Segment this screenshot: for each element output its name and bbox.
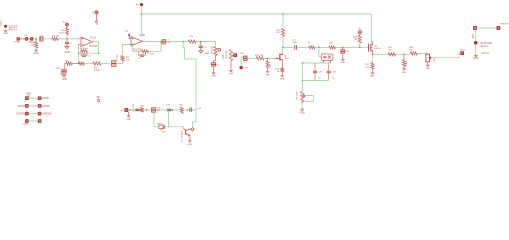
- wire C10 to R12: [247, 57, 256, 59]
- capacitor C9 to ground: [211, 63, 215, 67]
- ground GND C14: [342, 53, 344, 59]
- wire R24 to trimmer: [417, 52, 428, 55]
- resistor R24 series: [410, 52, 417, 55]
- resistor R7 interstage: [93, 62, 101, 66]
- wire top rail down to Q2 drain: [370, 14, 372, 41]
- ground GND P2: [229, 70, 233, 71]
- wire top supply rail: [142, 13, 372, 15]
- jumper square S3: [30, 38, 33, 41]
- jumper square BATT: [473, 26, 476, 29]
- wire P3 to ground: [301, 102, 303, 109]
- node D junction: [200, 41, 202, 43]
- wire C5 to R8 riser: [116, 61, 123, 63]
- op-amp IC1B output wire: [142, 41, 161, 43]
- wire pot P2 to ground: [230, 61, 232, 70]
- jumper square P2 wiper: [234, 54, 237, 57]
- jumper square row3 left: [25, 112, 28, 115]
- transistor Q1 JFET: [274, 53, 282, 62]
- node IC1B inverting junction: [131, 44, 133, 46]
- resistor R19 series: [329, 46, 335, 49]
- capacitor C2 to ground: [66, 39, 68, 41]
- jumper square S2: [25, 38, 28, 41]
- svg-text:5: 5: [129, 43, 130, 45]
- op-amp IC1B triangle: [131, 37, 142, 46]
- wire output down to feedback rail: [98, 42, 100, 53]
- wire feedback drop IC1B: [131, 45, 133, 52]
- resistor R23 to ground: [403, 60, 406, 67]
- wire R6 to R7: [85, 63, 93, 65]
- supply V+ top pad: [140, 3, 143, 6]
- wire R1 to ground: [35, 48, 37, 50]
- wire row2: [28, 105, 38, 107]
- trimmer TR1: [426, 54, 433, 62]
- wire J2 to ground: [475, 45, 477, 56]
- wire R7 to C5: [101, 63, 110, 65]
- wire vactrol bottom rail: [303, 62, 331, 64]
- svg-text:BOUT: BOUT: [460, 49, 467, 51]
- resistor R4 feedback: [81, 50, 88, 53]
- wire LFO row to Q3 collector: [192, 110, 196, 127]
- node LFO junction 4: [172, 109, 174, 111]
- wire trimmer wiper to BOUT: [432, 53, 460, 58]
- ground GND R1: [34, 50, 38, 51]
- capacitor C16 to rail: [328, 63, 330, 70]
- op-amp IC1A triangle: [81, 37, 93, 47]
- jumper square row1 left: [25, 97, 28, 100]
- wire branch down to R17: [282, 14, 284, 28]
- svg-text:+BATSW: +BATSW: [42, 113, 52, 116]
- svg-text:BRIGHT: BRIGHT: [501, 24, 509, 26]
- wire drain to C11: [283, 46, 294, 48]
- capacitor C3 feedback: [82, 54, 86, 56]
- wire node D to pot P1: [214, 42, 216, 47]
- svg-text:EGND2: EGND2: [17, 113, 26, 116]
- wire pad riser to C10: [241, 57, 243, 66]
- svg-text:+BATT: +BATT: [471, 32, 474, 39]
- node LFO junction 3: [146, 109, 148, 111]
- svg-text:GND: GND: [370, 76, 375, 78]
- resistor R21 to ground: [371, 63, 374, 69]
- svg-text:SPEED: SPEED: [157, 124, 164, 126]
- svg-text:L2GND: L2GND: [42, 105, 50, 108]
- ground GND R13: [267, 68, 269, 71]
- wire R5 to C4: [65, 64, 66, 70]
- connector J1 pad: [4, 25, 7, 28]
- wire BATT down to jack: [474, 30, 476, 41]
- jumper square row2 left: [25, 104, 28, 107]
- capacitor C1 series: [39, 37, 41, 41]
- svg-text:TL072P: TL072P: [89, 45, 98, 48]
- wire feedback up to output: [160, 42, 162, 52]
- capacitor C5 series: [112, 61, 116, 67]
- node F junction: [318, 47, 320, 49]
- net cross mark: [28, 95, 30, 96]
- ground GND LFO: [127, 116, 131, 117]
- wire R10 to node D: [196, 41, 214, 43]
- capacitor C8 to ground: [200, 42, 202, 46]
- ground AGND C8 triangle: [199, 51, 203, 53]
- connector pad IN2: [239, 66, 242, 69]
- resistor R3 bias: [66, 26, 68, 28]
- ground GND trimmer: [426, 65, 430, 66]
- svg-text:IC1A: IC1A: [90, 36, 96, 39]
- node LFO junction 5: [187, 109, 189, 111]
- wire supply V+ into IC1B top: [141, 14, 143, 36]
- wire C1 to R2: [42, 38, 52, 40]
- resistor R20 to V+: [358, 35, 361, 43]
- ground GND P3: [300, 109, 304, 110]
- capacitor C14 to ground: [342, 47, 344, 49]
- transistor Q2 MOSFET: [369, 43, 373, 53]
- node gain junction: [78, 63, 80, 65]
- svg-text:VR2 50k: VR2 50k: [226, 50, 228, 59]
- capacitor C18 electrolytic row: [152, 108, 156, 113]
- potentiometer P2 volume: [229, 50, 232, 61]
- svg-text:C17 10u: C17 10u: [133, 103, 135, 112]
- capacitor C15 to rail: [314, 63, 316, 70]
- svg-text:CE-2: CE-2: [0, 20, 3, 26]
- trimmer SPEED: [159, 125, 165, 130]
- capacitor C11 series: [294, 45, 296, 49]
- wire V- flag: [96, 14, 98, 21]
- pad diamond Q3 collector: [191, 128, 194, 131]
- svg-text:LJCH: LJCH: [22, 123, 28, 126]
- svg-text:GND: GND: [473, 57, 479, 60]
- svg-text:GND: GND: [229, 73, 234, 75]
- svg-text:1M: 1M: [270, 64, 272, 67]
- node feedback left junction: [78, 52, 80, 54]
- wire vactrol pin1 down: [323, 61, 325, 64]
- ground AGND C4: [63, 73, 65, 75]
- svg-text:GND: GND: [3, 33, 8, 35]
- svg-text:GND: GND: [204, 53, 209, 55]
- wire J1 to ground: [5, 28, 7, 31]
- svg-text:IC1B: IC1B: [139, 34, 145, 37]
- wire Q2 source to node I: [373, 53, 404, 54]
- wire vactrol pin2 down: [330, 61, 332, 64]
- wire R19 to node G: [335, 46, 359, 48]
- svg-text:J201: J201: [284, 58, 290, 60]
- node feedback right junction: [98, 52, 100, 54]
- svg-text:R2 47k: R2 47k: [52, 36, 60, 38]
- jumper square BOUT: [461, 52, 464, 55]
- connector J2 pad: [474, 41, 478, 45]
- svg-text:→OUT-2: →OUT-2: [479, 52, 489, 55]
- wire trimmer to ground: [427, 62, 429, 65]
- wire row1: [28, 97, 38, 99]
- svg-text:+OUT-1: +OUT-1: [479, 45, 488, 48]
- capacitor C17 on row: [135, 108, 139, 110]
- node LFO junction 1: [129, 109, 131, 111]
- svg-text:BS170: BS170: [374, 48, 381, 50]
- svg-text:3: 3: [78, 38, 79, 40]
- svg-text:GND: GND: [65, 51, 71, 54]
- svg-text:V-: V-: [96, 23, 98, 26]
- optocoupler VTL5C vactrol: [321, 54, 333, 60]
- jumper square row1 right: [38, 97, 41, 100]
- node Q2 source junction: [372, 53, 374, 55]
- op-amp IC1A output wire: [93, 41, 99, 43]
- resistor R25 on row: [141, 108, 144, 113]
- resistor R17 drain from rail: [281, 28, 284, 36]
- ground GND J2: [474, 56, 478, 57]
- jumper square BRIGHT: [497, 26, 500, 29]
- supply V+ pad right: [358, 31, 361, 34]
- wire R2 to node B: [58, 38, 81, 40]
- svg-text:GND: GND: [280, 78, 285, 80]
- wire loop to Q3 base: [169, 127, 184, 129]
- svg-text:GND: GND: [34, 52, 40, 55]
- supply VB arrow to non-inverting input: [128, 33, 130, 36]
- svg-text:1M: 1M: [354, 39, 357, 41]
- svg-text:CN2: CN2: [244, 68, 249, 70]
- node bottom rail junction: [302, 80, 304, 82]
- svg-text:GND: GND: [425, 68, 430, 70]
- svg-text:C5 10u: C5 10u: [116, 54, 118, 62]
- capacitor C7 electrolytic series: [162, 40, 166, 44]
- svg-text:GND: GND: [26, 93, 32, 96]
- net stub input squares: [20, 38, 25, 40]
- wire node G to V+ branch: [359, 44, 361, 48]
- resistor R26 on row: [180, 107, 183, 113]
- wire R18 to node F: [315, 46, 329, 48]
- wire P3 wiper loop: [305, 96, 314, 102]
- capacitor C10 electrolytic series: [243, 56, 247, 60]
- wire R17 to Q1 drain: [282, 36, 284, 47]
- ground GND Q3: [188, 141, 192, 142]
- node A junction: [35, 38, 37, 40]
- wire node I to R24: [404, 53, 410, 55]
- resistor R18 series: [309, 46, 316, 49]
- potentiometer P1 RATE: [214, 47, 217, 56]
- wire pot P1 to C9: [214, 56, 216, 63]
- wire node H to Q2 gate: [360, 46, 369, 48]
- svg-text:GND: GND: [340, 62, 345, 64]
- node LFO junction 2: [139, 109, 141, 111]
- ground GND R23: [403, 66, 405, 68]
- node top rail junction: [141, 13, 143, 15]
- wire S3 to node A: [33, 38, 39, 40]
- potentiometer P3 depth: [301, 91, 304, 101]
- node P3 bottom junction: [301, 101, 303, 103]
- op-amp IC1A inverting stub: [79, 43, 81, 45]
- svg-text:R4 100k: R4 100k: [80, 48, 89, 50]
- wire LFO row: [128, 109, 196, 111]
- node drain junction: [282, 47, 284, 49]
- svg-text:EGND: EGND: [18, 105, 25, 108]
- speed pot loop wires: [154, 110, 158, 127]
- svg-text:SGND: SGND: [14, 42, 21, 44]
- node E junction: [267, 58, 269, 60]
- wire node F to vactrol: [319, 47, 321, 57]
- ground GND R21: [371, 69, 373, 73]
- wire row3: [28, 113, 38, 115]
- feedback rail IC1B: [132, 50, 161, 52]
- svg-text:GND: GND: [187, 144, 192, 146]
- svg-text:100n: 100n: [292, 42, 298, 44]
- jumper square row4 left: [25, 120, 28, 123]
- svg-text:R12 22k: R12 22k: [255, 55, 264, 57]
- svg-text:*LFO: *LFO: [119, 110, 124, 112]
- svg-text:SGND: SGND: [42, 97, 49, 100]
- node I junction: [403, 53, 405, 55]
- wire caps bottom rail: [303, 80, 329, 82]
- resistor R14 source: [281, 68, 284, 73]
- resistor R8 riser: [121, 56, 124, 62]
- transistor Q3 BJT: [184, 129, 191, 136]
- resistor R9 feedback IC1B: [142, 50, 149, 53]
- wire row4: [28, 120, 38, 122]
- resistor R2 series: [52, 37, 59, 40]
- wire V+ pad down: [141, 6, 143, 14]
- capacitor C20 row: [189, 107, 191, 111]
- wire inverting input riser: [78, 44, 80, 63]
- jumper square row3 right: [38, 112, 41, 115]
- wire LFO gnd drop: [128, 112, 130, 116]
- supply V+ pad bias: [66, 23, 69, 26]
- node vactrol rail junction: [302, 62, 304, 64]
- node B junction: [66, 38, 68, 40]
- supply V- pad flag: [95, 11, 98, 14]
- ground GND C9: [213, 66, 215, 73]
- resistor R22 series right: [388, 53, 396, 56]
- wire BATT to BRIGHT: [477, 27, 497, 29]
- capacitor C19 row: [167, 108, 171, 110]
- wire R12 to node E: [264, 57, 274, 59]
- wire Q2 source down: [372, 54, 374, 62]
- capacitor C4 electrolytic: [62, 70, 67, 73]
- svg-text:GND: GND: [211, 76, 216, 78]
- svg-text:GND: GND: [265, 74, 270, 76]
- wire rail down to pot P3: [302, 63, 304, 91]
- wire Q3 emitter to ground: [189, 135, 191, 140]
- ground AGND C2 triangle: [65, 46, 69, 48]
- svg-text:GND: GND: [126, 119, 131, 121]
- wire C11 to R18: [297, 46, 309, 48]
- node C junction LFO tap: [182, 41, 184, 43]
- wire Q1 source down: [281, 61, 283, 68]
- node output junction IC1B: [160, 41, 162, 43]
- svg-text:VB: VB: [96, 96, 100, 99]
- pin open circle V-: [95, 21, 97, 23]
- svg-text:→INPUT-2: →INPUT-2: [6, 30, 17, 32]
- svg-text:GND: GND: [62, 78, 68, 81]
- jumper square row4 right: [38, 120, 41, 123]
- svg-text:Q3 2N3904: Q3 2N3904: [182, 130, 184, 142]
- resistor R6 interstage: [79, 62, 85, 65]
- svg-text:P1 100k: P1 100k: [212, 45, 214, 54]
- svg-text:GND: GND: [300, 111, 306, 114]
- node top rail branch junction: [282, 13, 284, 15]
- resistor R1 pulldown: [35, 42, 38, 48]
- svg-text:10kA: 10kA: [222, 54, 225, 60]
- wire riser to IC1B input: [123, 45, 132, 56]
- resistor R10 series: [188, 40, 196, 43]
- wire C7 to node C: [166, 41, 189, 43]
- feedback rail wire: [79, 52, 99, 54]
- wire LFO feed from node C: [183, 42, 196, 110]
- net stub squares S2-S3: [28, 38, 30, 40]
- capacitor C6 feedback IC1B: [140, 54, 144, 56]
- resistor R5 gain: [66, 62, 72, 65]
- svg-text:220n: 220n: [56, 68, 62, 70]
- jumper square S1: [17, 38, 20, 41]
- node H junction: [359, 47, 361, 49]
- svg-text:GND: GND: [402, 72, 407, 74]
- svg-text:1M: 1M: [31, 45, 34, 47]
- svg-text:P3 100k: P3 100k: [297, 90, 299, 99]
- jumper square LFO: [125, 108, 128, 111]
- ground GND J1: [4, 31, 8, 32]
- ground GND Q1: [281, 72, 283, 75]
- svg-text:0.25W: 0.25W: [94, 70, 101, 72]
- resistor R12 series: [256, 57, 264, 60]
- resistor R13 to ground: [266, 61, 269, 68]
- node G junction: [342, 47, 344, 49]
- jumper square row2 right: [38, 104, 41, 107]
